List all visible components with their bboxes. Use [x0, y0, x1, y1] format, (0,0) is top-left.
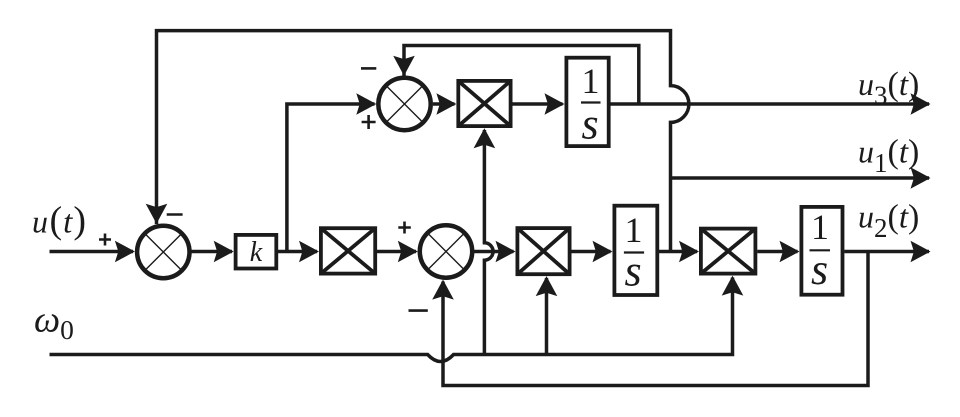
arrowhead into M2 bottom: [536, 276, 558, 296]
arrowhead into k: [214, 241, 234, 263]
svg-text:s: s: [581, 100, 598, 149]
integrator I2 (1/s): [614, 206, 657, 295]
minus sign at S2 bottom input: [409, 309, 428, 312]
plus sign at S3 left input: [362, 115, 376, 129]
arrowhead into M3: [679, 241, 699, 263]
multiplier M1 (box with X): [321, 228, 375, 273]
arrowhead into S3 left: [356, 93, 376, 115]
wire omega0 branch up to Mtop bottom (hop over middle row): [484, 130, 493, 355]
arrowhead into Mtop: [436, 93, 456, 115]
wire branch from k output up into summer S3: [287, 104, 375, 252]
arrowhead into S1 top: [146, 204, 168, 224]
summing junction S1 (circle with thin X): [137, 226, 189, 278]
summing junction S2 (circle with thin X): [420, 225, 472, 277]
svg-text:k: k: [250, 237, 263, 268]
wire I1 output to u3(t) with junctions: [611, 102, 930, 106]
arrowhead into S2 left: [398, 241, 418, 263]
gain block k: [236, 235, 277, 269]
wire input u(t) to summer S1: [50, 250, 134, 254]
arrowhead into Mtop bottom: [474, 128, 496, 148]
arrowhead into M2: [496, 241, 516, 263]
summing junction S3 (circle with thin X): [378, 78, 430, 130]
wire u1 output from vertical: [671, 176, 930, 180]
svg-text:u(t): u(t): [32, 200, 86, 242]
multiplier M2 (box with X): [517, 228, 569, 274]
arrowhead into S1 left: [115, 241, 135, 263]
wire I2 to multiplier M3: [659, 250, 697, 254]
multiplier Mtop (box with X): [458, 81, 510, 126]
arrowhead into I1: [545, 93, 565, 115]
svg-text:1: 1: [625, 210, 643, 250]
arrowhead into M1: [299, 241, 319, 263]
wire S1 to gain k: [192, 250, 233, 254]
svg-text:s: s: [811, 245, 828, 294]
wire u2 feedback to S2 bottom: [443, 252, 868, 386]
minus sign at S3 top input: [361, 67, 376, 70]
svg-text:u2(t): u2(t): [858, 199, 919, 244]
wire Mtop to integrator I1: [512, 102, 562, 106]
wire M2 to integrator I2: [571, 250, 610, 254]
plus sign at S1 input: [99, 234, 111, 246]
wire omega0 distribution line with dip under S2 feedback, up into M3: [50, 278, 733, 362]
integrator I3 (1/s): [801, 207, 842, 295]
wire S3 to multiplier Mtop: [433, 102, 455, 106]
wire M1 to summer S2: [377, 250, 416, 254]
wire feedback integrator I1 output to summer S3 top: [404, 46, 639, 105]
svg-text:1: 1: [582, 61, 600, 101]
arrowhead into S3 top: [393, 56, 415, 76]
wire k to multiplier M1: [278, 250, 317, 254]
wire omega0 branch up into M2 bottom: [545, 278, 549, 355]
multiplier M3 (box with X): [701, 229, 756, 274]
arrowhead u3 output: [911, 93, 931, 115]
minus sign at S1 top input: [167, 213, 183, 216]
wire M3 to integrator I3: [757, 250, 797, 254]
arrowhead into I3: [780, 241, 800, 263]
wire S2 to multiplier M2: [474, 250, 513, 254]
wire feedback from node u1 over the top into S1 (with crossover hop over u3 line): [157, 31, 689, 252]
arrowhead u1 output: [911, 167, 931, 189]
arrowhead into M3 bottom: [722, 276, 744, 296]
svg-text:u1(t): u1(t): [858, 134, 919, 179]
arrowhead into I2: [593, 241, 613, 263]
arrowhead into S2 bottom: [432, 280, 454, 300]
arrowhead u2 output: [911, 241, 931, 263]
svg-text:s: s: [624, 247, 641, 296]
plus sign at S2 left input: [398, 222, 411, 234]
svg-text:1: 1: [811, 207, 829, 247]
svg-text:ω0: ω0: [34, 300, 74, 346]
integrator I1 (1/s): [566, 58, 608, 146]
wire I3 output to u2(t): [844, 250, 929, 254]
